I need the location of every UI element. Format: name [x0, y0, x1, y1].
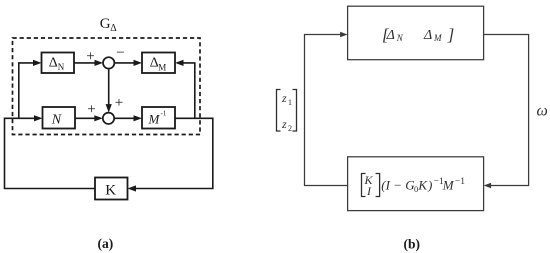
svg-text:]: ] [447, 25, 455, 44]
svg-text:1: 1 [288, 98, 292, 107]
svg-text:Δ: Δ [49, 55, 58, 70]
block Delta_N [42, 53, 75, 74]
wire: top box output right and down into bottom box [484, 35, 529, 186]
summing junction S2 (bottom) [103, 113, 114, 124]
dashed uncertainty boundary box G_Delta [13, 38, 201, 135]
svg-text:+: + [87, 102, 95, 118]
wire: branch up to Delta_N input [19, 63, 34, 118]
svg-text:−1: −1 [455, 177, 465, 187]
svg-text:Δ: Δ [110, 23, 117, 34]
svg-text:N: N [51, 113, 62, 128]
arrowhead into S2 from left [94, 115, 103, 121]
svg-text:-1: -1 [161, 110, 167, 118]
wire: up-branch into Delta_M right side [181, 63, 195, 118]
svg-text:Δ: Δ [423, 28, 432, 43]
arrowhead into bottom box [484, 183, 492, 188]
svg-text:Δ: Δ [386, 28, 395, 43]
block M^-1 [142, 107, 175, 129]
svg-text:z: z [281, 117, 287, 131]
wire: N to S2 [75, 117, 97, 119]
label [K;I](I-G0K)^-1M^-1 (bottom box text) [362, 173, 466, 198]
arrowhead into S1 [95, 60, 104, 66]
svg-text:+: + [86, 49, 94, 65]
svg-text:z: z [281, 91, 287, 105]
wire: bottom box output left and up into top box [305, 35, 348, 186]
arrowhead into M^-1 [134, 115, 143, 121]
arrowhead into S2 from top [106, 104, 112, 113]
wire: S2 to M^-1 [114, 117, 136, 119]
svg-text:M: M [158, 62, 166, 72]
svg-text:N: N [396, 33, 404, 43]
label G_Delta [100, 16, 118, 34]
block N [43, 107, 76, 129]
svg-text:(b): (b) [404, 237, 421, 252]
svg-text:M: M [148, 112, 161, 127]
wire: Delta_N to S1 [74, 62, 97, 64]
wire: K output left and up to input [5, 118, 96, 188]
arrowhead into N [34, 115, 43, 121]
wire: S1 to Delta_M [114, 62, 136, 64]
right tall bracket of [K;I] [376, 174, 380, 197]
svg-text:(I − G: (I − G [381, 178, 415, 193]
arrowhead into Delta_M left [134, 60, 143, 66]
block K [95, 178, 128, 200]
arrowhead into Delta_N [33, 60, 42, 66]
svg-text:2: 2 [288, 124, 292, 133]
summing junction S1 (top) [103, 57, 114, 68]
svg-text:ω: ω [537, 103, 548, 120]
svg-text:M: M [442, 178, 455, 193]
arrowhead into Delta_M right [175, 60, 184, 66]
svg-text:): ) [427, 178, 432, 193]
arrowhead into K [128, 185, 137, 191]
label z-vector [z1;z2] [277, 90, 297, 134]
label Delta_N (block text) [49, 55, 65, 72]
label Delta_M (block text) [150, 55, 167, 72]
svg-text:+: + [115, 95, 123, 111]
wire: M^-1 output to right, up into Delta_M, and down to K [134, 118, 213, 188]
label [Delta_N Delta_M] (top box text) [382, 25, 454, 44]
label M^-1 (block text) [148, 110, 167, 127]
block Delta_M [142, 53, 175, 74]
svg-text:−: − [116, 45, 124, 61]
svg-text:N: N [58, 62, 65, 72]
svg-text:K: K [417, 178, 428, 193]
svg-text:M: M [433, 33, 442, 43]
arrowhead into top box [340, 32, 348, 37]
wire: S1 down to S2 [108, 69, 110, 107]
block [Delta_N Delta_M] (top box) [348, 6, 484, 60]
svg-text:(a): (a) [98, 236, 114, 251]
svg-text:K: K [105, 182, 116, 198]
block [K;I](I-G0K)^-1 M^-1 (bottom box) [348, 157, 484, 211]
svg-text:G: G [100, 16, 111, 32]
left tall bracket of [K;I] [362, 174, 366, 197]
